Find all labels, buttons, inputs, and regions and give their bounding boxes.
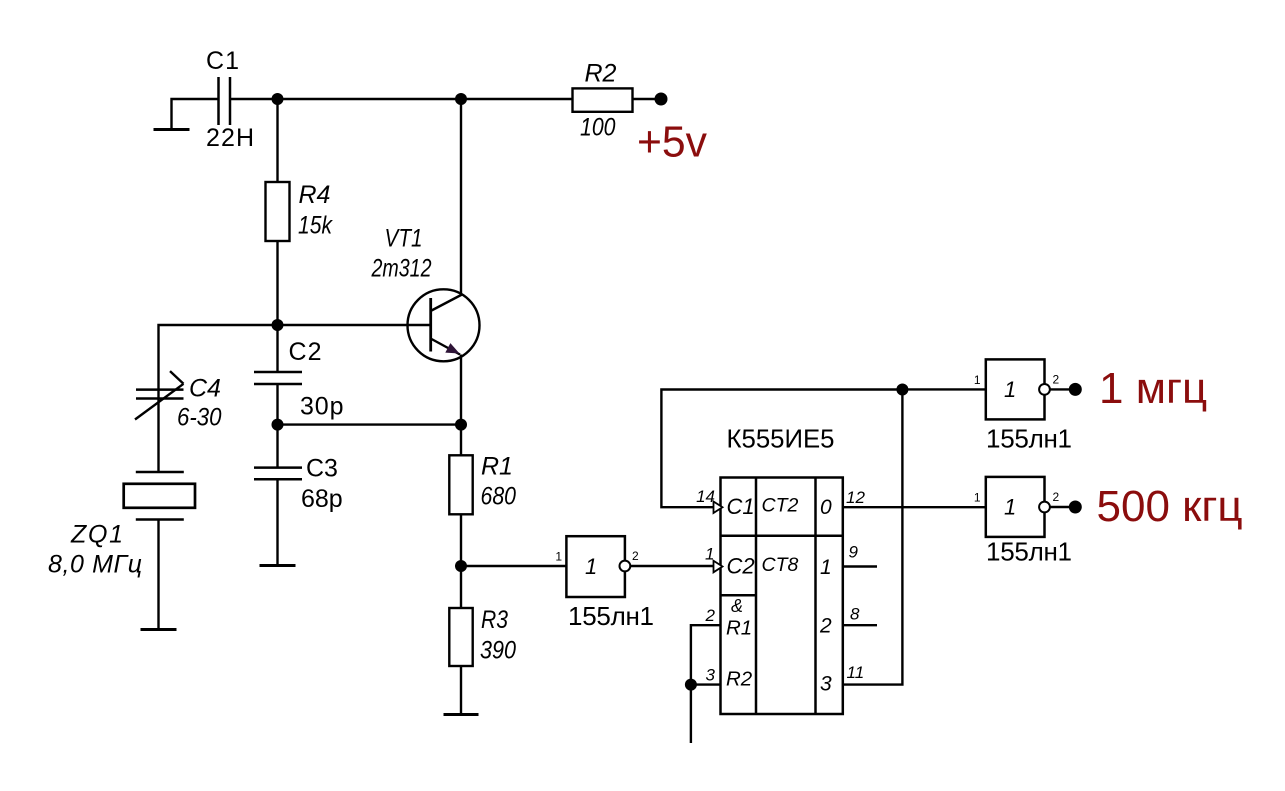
svg-text:0: 0 bbox=[820, 496, 832, 519]
pin 12 label bbox=[846, 488, 865, 507]
svg-text:8: 8 bbox=[850, 605, 860, 624]
svg-text:+5v: +5v bbox=[637, 118, 707, 167]
svg-text:1: 1 bbox=[585, 554, 597, 579]
svg-text:3: 3 bbox=[706, 666, 716, 685]
wire ZQ1 to ground bbox=[157, 520, 159, 630]
wire U2 output to counter pin 1 bbox=[631, 565, 714, 567]
resistor R4 15k bbox=[266, 181, 334, 241]
svg-text:1: 1 bbox=[1004, 495, 1016, 520]
svg-text:155лн1: 155лн1 bbox=[986, 424, 1072, 454]
crystal ZQ1 8,0 MHz bbox=[48, 472, 195, 579]
wire node G to gate U4 bbox=[902, 388, 985, 390]
svg-text:CT8: CT8 bbox=[762, 554, 799, 576]
svg-text:R1: R1 bbox=[481, 453, 513, 481]
capacitor C1 bbox=[206, 47, 254, 152]
wire R1 to node F bbox=[460, 514, 462, 566]
wire node D to node E (emitter row) bbox=[278, 423, 462, 425]
node H junction bbox=[685, 679, 697, 691]
svg-text:100: 100 bbox=[580, 114, 616, 142]
node A junction bbox=[272, 93, 284, 105]
wire base node to transistor base bbox=[278, 324, 431, 326]
svg-text:2: 2 bbox=[705, 606, 716, 625]
wire collector to node B bbox=[460, 99, 462, 295]
svg-text:ZQ1: ZQ1 bbox=[70, 521, 123, 549]
svg-text:2: 2 bbox=[819, 615, 832, 638]
inverter U5 155ln1 (500 kHz) bbox=[974, 477, 1072, 566]
svg-text:R1: R1 bbox=[726, 617, 752, 640]
svg-text:2: 2 bbox=[1053, 373, 1060, 387]
svg-text:R4: R4 bbox=[299, 181, 331, 209]
svg-text:К555ИЕ5: К555ИЕ5 bbox=[727, 424, 835, 454]
node B junction bbox=[455, 93, 467, 105]
ground (below R3) bbox=[444, 713, 479, 716]
svg-text:2: 2 bbox=[632, 549, 639, 563]
svg-text:14: 14 bbox=[696, 487, 715, 506]
svg-text:8,0 МГц: 8,0 МГц bbox=[48, 551, 142, 579]
svg-text:VT1: VT1 bbox=[385, 225, 423, 253]
svg-text:500 кгц: 500 кгц bbox=[1097, 482, 1243, 531]
svg-text:680: 680 bbox=[481, 483, 517, 511]
resistor R2 100 bbox=[573, 60, 633, 142]
ground (top-left) bbox=[154, 128, 190, 131]
node D junction bbox=[272, 419, 284, 431]
resistor R3 390 bbox=[449, 606, 516, 666]
svg-text:&: & bbox=[731, 596, 743, 616]
terminal 1 MHz bbox=[1069, 364, 1207, 413]
pin 2 wire bbox=[691, 606, 721, 685]
svg-text:C2: C2 bbox=[727, 553, 755, 578]
pin 11 label bbox=[847, 663, 865, 682]
svg-text:2: 2 bbox=[1053, 490, 1060, 504]
wire node F to gate U2 input bbox=[461, 565, 566, 567]
svg-text:C1: C1 bbox=[206, 47, 239, 75]
wire U5 output to terminal bbox=[1050, 506, 1069, 508]
svg-text:15k: 15k bbox=[298, 212, 333, 240]
svg-text:30p: 30p bbox=[300, 393, 344, 421]
svg-text:1: 1 bbox=[974, 491, 981, 505]
svg-text:C2: C2 bbox=[289, 338, 322, 366]
svg-text:1: 1 bbox=[705, 545, 714, 564]
wire R4 to node C bbox=[276, 241, 278, 325]
feedback vertical wire from pin 11 bbox=[843, 390, 903, 685]
svg-text:C4: C4 bbox=[189, 375, 221, 403]
svg-text:68p: 68p bbox=[301, 485, 343, 513]
pin 9 stub bbox=[843, 543, 877, 567]
svg-text:C1: C1 bbox=[727, 494, 755, 519]
svg-text:155лн1: 155лн1 bbox=[568, 601, 654, 631]
svg-text:1: 1 bbox=[974, 373, 981, 387]
wire top-left to ground bbox=[172, 99, 219, 129]
wire node F to R3 bbox=[460, 566, 462, 608]
terminal +5v bbox=[637, 93, 707, 167]
ground (below ZQ1) bbox=[141, 628, 177, 631]
terminal 500 kHz bbox=[1069, 482, 1243, 531]
svg-text:9: 9 bbox=[849, 543, 859, 562]
svg-text:C3: C3 bbox=[306, 454, 338, 482]
node G junction bbox=[896, 384, 908, 396]
trimmer capacitor C4 6-30 bbox=[135, 371, 222, 431]
wire base node to C4 branch bbox=[159, 325, 278, 472]
svg-text:1: 1 bbox=[555, 550, 562, 564]
wire R2 to +5v terminal bbox=[633, 98, 662, 100]
stub below node H bbox=[690, 685, 692, 743]
feedback wire pin 14 bbox=[661, 390, 902, 508]
capacitor C3 68p bbox=[254, 454, 343, 513]
ground (below C3) bbox=[260, 564, 296, 567]
svg-text:R3: R3 bbox=[481, 606, 508, 634]
svg-text:6-30: 6-30 bbox=[177, 404, 222, 432]
svg-text:2m312: 2m312 bbox=[371, 255, 432, 283]
svg-text:1 мгц: 1 мгц bbox=[1099, 364, 1207, 413]
counter U3 K555IE5 bbox=[721, 424, 843, 714]
svg-text:CT2: CT2 bbox=[762, 495, 799, 517]
pin 14 clock triangle bbox=[696, 487, 722, 513]
wire pin 12 to gate U5 bbox=[843, 506, 986, 508]
wire node B to R2 bbox=[461, 98, 573, 100]
pin 8 stub bbox=[843, 605, 877, 626]
pin 3 wire bbox=[691, 666, 721, 685]
node E junction bbox=[455, 419, 467, 431]
inverter U2 155ln1 bbox=[555, 536, 654, 631]
svg-text:R2: R2 bbox=[726, 667, 753, 690]
inverter U4 155ln1 (1 MHz) bbox=[974, 359, 1072, 453]
svg-text:155лн1: 155лн1 bbox=[986, 536, 1072, 566]
wire U4 output to terminal bbox=[1050, 388, 1069, 390]
svg-text:12: 12 bbox=[846, 488, 865, 507]
wire C2 to node D bbox=[276, 384, 278, 425]
node F junction bbox=[455, 560, 467, 572]
transistor VT1 2m312 bbox=[371, 225, 480, 362]
wire R3 to ground bbox=[460, 666, 462, 715]
wire node A to node B bbox=[278, 98, 462, 100]
svg-text:1: 1 bbox=[1004, 377, 1016, 402]
wire C3 to ground bbox=[276, 479, 278, 565]
wire node D to C3 bbox=[276, 425, 278, 468]
svg-text:R2: R2 bbox=[585, 60, 617, 88]
svg-text:3: 3 bbox=[820, 673, 832, 696]
wire C1 to node A bbox=[230, 98, 278, 100]
svg-text:22Н: 22Н bbox=[206, 124, 254, 152]
capacitor C2 30p bbox=[254, 338, 344, 421]
pin 1 clock triangle bbox=[705, 545, 722, 573]
wire base node to C2 bbox=[276, 325, 278, 372]
wire node A to R4 bbox=[276, 99, 278, 182]
svg-text:11: 11 bbox=[847, 663, 865, 682]
svg-text:1: 1 bbox=[820, 556, 832, 579]
svg-text:390: 390 bbox=[480, 637, 516, 665]
wire emitter to R1 bbox=[460, 355, 462, 456]
node C junction (base node) bbox=[272, 319, 284, 331]
resistor R1 680 bbox=[449, 453, 516, 515]
